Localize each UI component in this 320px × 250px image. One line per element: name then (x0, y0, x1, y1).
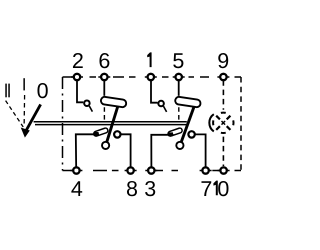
svg-text:7: 7 (200, 177, 212, 201)
svg-text:3: 3 (144, 177, 156, 201)
svg-text:0: 0 (217, 177, 229, 201)
svg-text:4: 4 (71, 177, 83, 201)
svg-text:6: 6 (98, 49, 110, 73)
svg-text:9: 9 (217, 49, 229, 73)
svg-text:5: 5 (172, 49, 184, 73)
svg-text:2: 2 (72, 49, 84, 73)
svg-text:8: 8 (126, 177, 138, 201)
svg-text:0: 0 (37, 79, 49, 103)
